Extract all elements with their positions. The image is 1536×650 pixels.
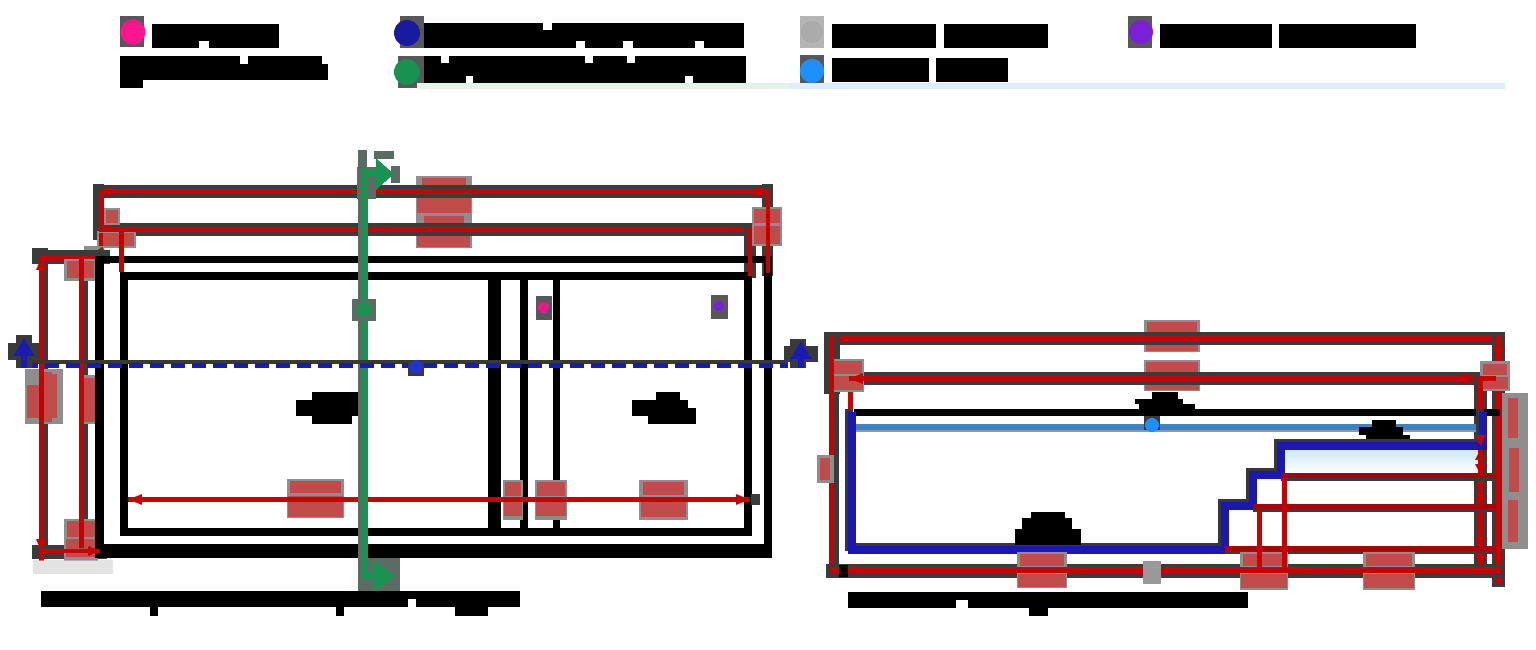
green top arrow: [363, 169, 377, 175]
dim extension right 1 red: [766, 189, 770, 273]
pink marker: [536, 296, 552, 320]
top center dim labels (redacted): [416, 176, 472, 248]
top dim line 2: [98, 227, 768, 232]
step dim line A: [1281, 478, 1496, 481]
dim1 arrowheads: [98, 186, 112, 197]
left vertical dim 2 halo: [83, 264, 88, 534]
pool outer wall right: [764, 256, 772, 558]
dim extension right 1 halo: [762, 184, 773, 276]
pool inner wall left: [120, 272, 128, 536]
legend text row2 col3 (redacted): [832, 58, 929, 82]
legend swatch 2 (navy): [400, 16, 424, 48]
legend text row1 col4 (redacted): [1160, 24, 1272, 48]
dim extension inner left red: [119, 232, 124, 272]
left dim bottom extension halo: [32, 545, 107, 559]
legend blue highlight strip: [790, 83, 1505, 89]
section dim line 2: [849, 376, 1478, 381]
LEGEND: [120, 16, 1505, 89]
bottom left labels (redacted): [64, 519, 98, 561]
right label column (redacted): [1502, 393, 1528, 549]
legend text row2 col2 (redacted): [424, 56, 746, 83]
top dim line 1 halo: [94, 185, 772, 198]
left corner small label (redacted): [64, 259, 97, 281]
legend swatch 6 (purple): [1128, 16, 1152, 48]
section right vertical dim 2 halo: [1492, 332, 1505, 587]
legend swatch 5 (dodger blue): [800, 55, 824, 88]
section left vertical dim halo: [824, 332, 840, 394]
bottom dim labels (redacted): [287, 479, 344, 518]
bottom labels (redacted): [1017, 552, 1067, 588]
divider wall A: [488, 272, 501, 536]
legend swatch 3 (green): [398, 56, 424, 88]
left dim bottom extension red: [40, 549, 100, 553]
divider wall C: [553, 272, 560, 536]
left dim top extension halo: [32, 250, 110, 264]
dim2 arrowheads: [98, 224, 112, 235]
green section line: [362, 168, 368, 592]
bottom inner dim line red: [128, 497, 750, 502]
dim extension right 2 red: [748, 227, 752, 276]
top dim line 2 halo: [94, 223, 770, 236]
blue dashed water line: [24, 363, 788, 368]
pool inner wall top: [120, 272, 752, 280]
blue dot marker: [408, 361, 424, 376]
right top label (redacted): [1480, 361, 1510, 391]
section right vertical dim 1 red: [1478, 381, 1483, 572]
section left labels (redacted): [832, 359, 864, 392]
green section line halo: [358, 150, 367, 592]
section caption (redacted): [848, 592, 1248, 608]
deck label blob (redacted): [1152, 392, 1178, 399]
section dim line 1 halo: [824, 332, 1503, 345]
section dim2 left extension red: [848, 376, 853, 415]
legend swatch 4 (silver): [800, 16, 824, 48]
step dim line C: [1225, 551, 1496, 554]
pool inner wall right: [744, 272, 752, 536]
blue left end arrow: [16, 335, 32, 368]
RIGHT DRAWING (section view): [817, 320, 1528, 616]
bottom dim black tick: [839, 565, 848, 577]
pool outer wall left: [95, 256, 104, 558]
section left vertical dim red: [829, 336, 834, 576]
pool name blob (redacted): [312, 392, 359, 400]
plan caption (redacted): [41, 591, 520, 607]
water line right blob (redacted): [1372, 420, 1396, 427]
purple marker: [711, 295, 728, 319]
water fill above bench: [1285, 450, 1478, 474]
faint gray strip: [33, 560, 113, 574]
spa name blob (redacted): [656, 392, 680, 400]
left vertical dim 2 red: [79, 257, 84, 548]
blue section line halo: [24, 360, 788, 364]
green bottom arrow: [361, 552, 367, 580]
top left dim labels (redacted): [104, 208, 120, 225]
legend text row2 col1 (redacted): [120, 56, 322, 80]
left vertical dim 1 red: [39, 256, 44, 553]
green dot marker: [352, 299, 376, 321]
dim extension left halo: [93, 184, 104, 240]
top right dim label (redacted): [752, 207, 782, 246]
legend text row1 col3 (redacted): [832, 24, 936, 48]
left dim arrowheads: [36, 256, 47, 270]
legend text row1 col2 (redacted): [424, 23, 744, 48]
section right vertical dim 2 red: [1496, 336, 1501, 583]
step dim verticals: [1282, 478, 1287, 572]
step dim line B: [1253, 509, 1496, 512]
section right vertical dim 1 halo: [1474, 376, 1487, 576]
pool shell outline: [852, 412, 1483, 550]
bottom dim line red: [829, 567, 1501, 573]
pool shell halo: [849, 409, 1480, 547]
water line dot: [1144, 416, 1160, 430]
left mid rotated labels (redacted): [25, 369, 63, 424]
pool inner wall bottom: [120, 528, 752, 536]
section top center labels (redacted): [1144, 320, 1200, 352]
green bottom arrow gray back: [359, 558, 400, 592]
left vertical dim 1 halo: [42, 264, 48, 545]
legend swatch 1 (pink): [120, 16, 144, 47]
water line: [853, 424, 1479, 430]
LEFT DRAWING (plan view): [8, 150, 818, 616]
dim extension left red: [99, 189, 103, 256]
divider wall B: [520, 272, 528, 536]
top dim line 1: [98, 189, 770, 194]
pool depth blob (redacted): [1031, 512, 1065, 520]
left dim top extension red: [40, 256, 103, 261]
bottom dim line halo: [826, 564, 1503, 578]
legend green highlight strip: [417, 83, 790, 89]
pool outer wall top: [95, 256, 772, 263]
deck line: [854, 409, 1500, 416]
section dim line 1: [829, 336, 1500, 341]
blue right end arrow: [790, 339, 806, 368]
green top arrow gray back: [374, 151, 394, 159]
bottom dim gray square: [1143, 561, 1161, 584]
dim extension right 2 halo: [744, 223, 756, 278]
pool outer wall bottom: [95, 544, 772, 558]
legend text row1 col1 (redacted): [152, 24, 279, 48]
section dim line 2 halo: [845, 372, 1503, 385]
